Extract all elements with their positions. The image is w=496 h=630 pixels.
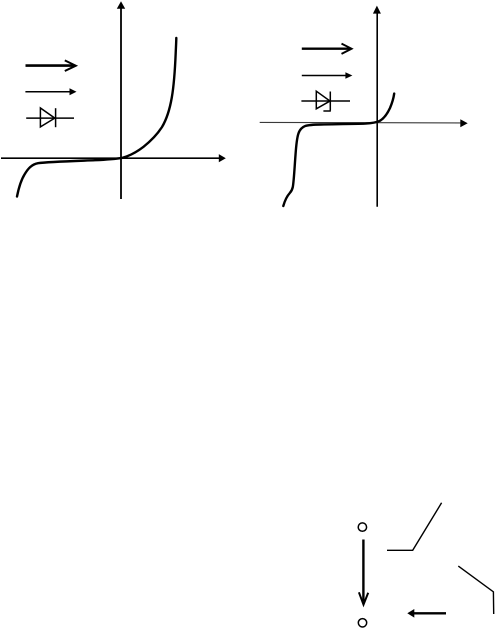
zener characteristic curve (graph 2) — [283, 94, 394, 206]
switch lever wire (right) — [458, 566, 493, 614]
graph 1 vertical axis (current axis) — [120, 8, 122, 199]
node terminal (top circle) — [358, 523, 366, 531]
diode D1 symbol (graph 1) — [26, 108, 74, 127]
graph 2 vertical axis (current axis) — [376, 13, 378, 207]
graph 1 annotation arrow (thin, filled head) — [25, 88, 76, 95]
graph 2 vertical axis arrowhead — [373, 6, 381, 14]
graph 1 vertical axis arrowhead — [117, 1, 125, 9]
graph 2 annotation arrow (thin, filled head) — [302, 72, 353, 79]
wire arrow (vertical, open barb head) — [359, 540, 368, 605]
graph 2 horizontal axis (voltage axis) — [260, 121, 461, 124]
switch lever wire (upper) — [387, 503, 442, 551]
zener diode D2 symbol (graph 2) — [301, 91, 350, 111]
graph 1 annotation arrow (thick, open chevron head) — [26, 60, 76, 71]
graph 1 horizontal axis (voltage axis) — [1, 157, 220, 159]
graph 2 annotation arrow (thick, open chevron head) — [302, 44, 352, 54]
graph 2 horizontal axis arrowhead — [460, 119, 467, 127]
wire arrow (horizontal, filled head, pointing left) — [407, 609, 446, 618]
graph 1 horizontal axis arrowhead — [219, 154, 226, 162]
diode characteristic curve (graph 1) — [17, 38, 176, 197]
node terminal (bottom circle) — [358, 619, 366, 627]
